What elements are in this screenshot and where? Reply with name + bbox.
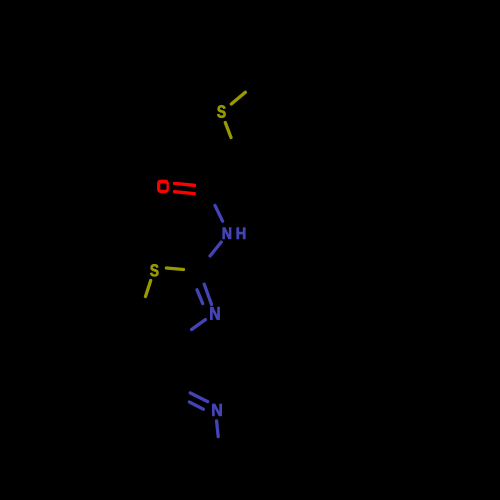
wire: pyridine C2'=N1' double bond main blue line <box>190 393 207 402</box>
node S1: thiophene sulfur label <box>217 105 225 117</box>
wire: carbonyl C=O double bond bottom red line <box>175 192 195 194</box>
wire: thiazole N3-C4 bond blue half <box>192 320 206 330</box>
wire: thiazole C2=N3 double bond inner blue line <box>197 290 203 304</box>
wire: thiazole C2=N3 double bond main blue line <box>204 284 211 304</box>
wire: thiophene S1-C5 bond upper yellow half <box>231 92 245 104</box>
node N3: thiazole nitrogen label <box>210 307 219 320</box>
wire: thiophene S1-C2 bond lower yellow half <box>225 123 231 138</box>
node N-H: amide nitrogen label N <box>223 228 231 239</box>
node S2: thiazole sulfur label <box>150 264 158 276</box>
wire: amide N to thiazole C2 bond blue half <box>210 242 221 256</box>
wire: thiazole S-C2 bond yellow half <box>166 268 183 270</box>
node N1: pyridine nitrogen label <box>212 404 221 416</box>
wire: amide C-N bond blue half <box>215 206 223 222</box>
wire: thiazole S-C5 bond yellow half <box>146 281 151 297</box>
wire: carbonyl C=O double bond top red line <box>175 183 195 185</box>
wire: pyridine C2'=N1' double bond inner blue line <box>189 402 203 409</box>
wire: pyridine N1'-C6' bond blue half <box>217 421 219 437</box>
node O: carbonyl oxygen label <box>157 180 169 194</box>
node N-H: amide hydrogen label H <box>237 228 246 239</box>
